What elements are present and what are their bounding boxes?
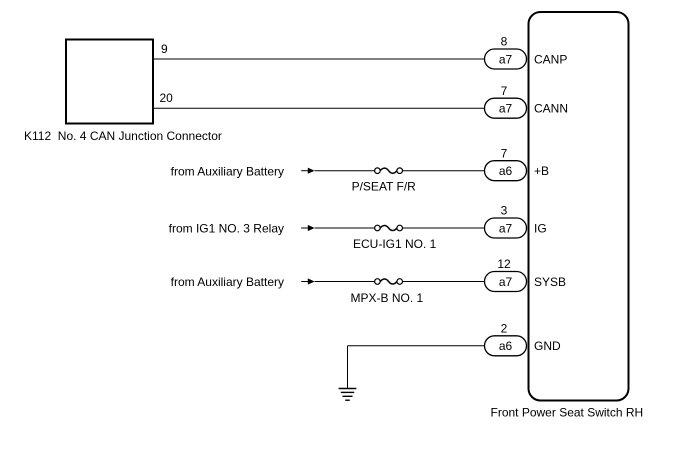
svg-text:+B: +B xyxy=(534,164,549,178)
svg-text:IG: IG xyxy=(534,221,547,235)
svg-text:ECU-IG1 NO. 1: ECU-IG1 NO. 1 xyxy=(353,237,437,251)
svg-text:3: 3 xyxy=(501,204,508,218)
svg-text:from IG1 NO. 3 Relay: from IG1 NO. 3 Relay xyxy=(169,222,284,236)
svg-text:a7: a7 xyxy=(499,221,513,235)
svg-text:from Auxiliary Battery: from Auxiliary Battery xyxy=(171,275,284,289)
svg-text:a7: a7 xyxy=(499,275,513,289)
svg-text:SYSB: SYSB xyxy=(534,275,566,289)
svg-text:20: 20 xyxy=(160,91,174,105)
svg-text:9: 9 xyxy=(161,42,168,56)
svg-text:a7: a7 xyxy=(499,52,513,66)
svg-text:Front Power Seat Switch RH: Front Power Seat Switch RH xyxy=(491,406,644,420)
svg-text:CANP: CANP xyxy=(534,52,567,66)
svg-text:GND: GND xyxy=(534,339,561,353)
svg-text:8: 8 xyxy=(501,35,508,49)
svg-text:a6: a6 xyxy=(499,164,513,178)
svg-text:MPX-B NO. 1: MPX-B NO. 1 xyxy=(351,291,424,305)
svg-text:7: 7 xyxy=(501,146,508,160)
svg-text:CANN: CANN xyxy=(534,102,568,116)
svg-text:P/SEAT F/R: P/SEAT F/R xyxy=(352,180,417,194)
svg-text:a7: a7 xyxy=(499,102,513,116)
svg-text:12: 12 xyxy=(497,257,511,271)
svg-text:7: 7 xyxy=(501,84,508,98)
svg-text:2: 2 xyxy=(501,321,508,335)
svg-text:from Auxiliary Battery: from Auxiliary Battery xyxy=(171,164,284,178)
svg-text:a6: a6 xyxy=(499,339,513,353)
svg-text:K112 No. 4 CAN Junction Conne: K112 No. 4 CAN Junction Connector xyxy=(24,129,222,143)
